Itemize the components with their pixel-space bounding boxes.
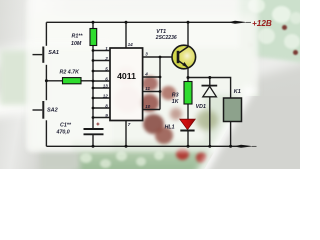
svg-text:7: 7 xyxy=(128,122,131,127)
gray corner beyond pcb edge bottom-right xyxy=(196,96,300,169)
transistor VT1 collector diagonal xyxy=(178,47,188,54)
node left wire / R2 junction xyxy=(45,79,48,82)
red/maroon component blobs under overlay xyxy=(116,66,136,85)
node bus pin2 xyxy=(92,59,95,62)
resistor R3 xyxy=(184,82,192,105)
wire pin 12 stub xyxy=(93,97,110,99)
wire pin 7 ground lead xyxy=(125,121,127,147)
white diagonal streak left middle xyxy=(0,65,171,125)
wire left input bus down to C1 xyxy=(92,46,94,129)
svg-text:VD1: VD1 xyxy=(196,104,206,110)
node emitter rail / VD1 junction xyxy=(208,76,211,79)
node ground rail / K1 junction xyxy=(229,145,232,148)
svg-text:2SC2236: 2SC2236 xyxy=(155,35,177,41)
wire C1 bottom lead xyxy=(92,135,94,146)
svg-text:11: 11 xyxy=(145,86,150,91)
svg-text:13: 13 xyxy=(103,83,109,88)
resistor R2 xyxy=(63,78,82,84)
svg-text:12: 12 xyxy=(103,93,109,98)
node output bus pin11 xyxy=(159,90,162,93)
svg-text:3: 3 xyxy=(145,52,148,57)
wire bottom ground rail xyxy=(46,145,237,147)
wire R1 top lead xyxy=(92,22,94,28)
node ground rail / HL1 junction xyxy=(187,145,190,148)
node emitter / R3 junction xyxy=(187,76,190,79)
svg-text:2: 2 xyxy=(104,56,108,61)
wire pin 14 supply lead xyxy=(125,22,127,48)
LED HL1 xyxy=(180,119,195,130)
arrow +12V supply xyxy=(231,21,252,24)
node bus pin1 xyxy=(92,49,95,52)
svg-text:VT1: VT1 xyxy=(156,29,166,35)
svg-text:SA2: SA2 xyxy=(47,107,58,113)
wire VD1 top lead xyxy=(209,78,211,86)
bottom green pcb strip xyxy=(72,141,240,172)
node top rail / R1 junction xyxy=(92,21,95,24)
wire pin 4 stub xyxy=(143,76,160,78)
wire pin 5 stub xyxy=(93,70,110,72)
svg-text:14: 14 xyxy=(128,42,134,47)
wire VT1 emitter vertical xyxy=(187,68,189,78)
svg-text:R1**: R1** xyxy=(72,34,84,40)
node bus pin12 xyxy=(92,97,95,100)
wire R3 top lead xyxy=(187,78,189,82)
green pcb top-right corner xyxy=(229,0,312,63)
svg-text:4011: 4011 xyxy=(117,71,136,81)
wire pin 2 stub xyxy=(93,60,110,62)
svg-text:10M: 10M xyxy=(71,41,82,47)
wire pin 1 stub xyxy=(93,50,110,52)
switch SA2 xyxy=(33,101,44,119)
wire base lead to VT1 xyxy=(160,56,177,58)
wire VD1 bottom lead xyxy=(209,97,211,147)
wire SA1 to R2 junction to SA2 xyxy=(45,65,47,100)
maroon component blobs seen through panel xyxy=(142,76,158,91)
transistor VT1 emitter arrow xyxy=(182,62,188,68)
svg-text:HL1: HL1 xyxy=(165,124,175,130)
wire emitter rail to K1 xyxy=(188,78,231,99)
node bus pin8 xyxy=(92,107,95,110)
wire SA2 bottom to bottom-left corner xyxy=(45,120,47,146)
photo background: base gray with streaks xyxy=(0,0,300,169)
wire pin 3 stub xyxy=(143,56,160,58)
node output bus pin3 xyxy=(159,56,162,59)
node top rail / collector junction xyxy=(187,21,190,24)
wire right output bus xyxy=(159,57,161,110)
node ground rail / C1 junction xyxy=(92,145,95,148)
svg-text:+12В: +12В xyxy=(252,19,272,28)
transistor VT1 emitter diagonal xyxy=(178,61,188,68)
capacitor C1 polarity plus xyxy=(96,123,99,126)
node top rail / pin14 junction xyxy=(125,21,128,24)
svg-text:4: 4 xyxy=(144,72,148,77)
svg-text:10: 10 xyxy=(145,104,151,109)
svg-text:470,0: 470,0 xyxy=(56,129,70,135)
wire R2 left lead xyxy=(46,80,62,82)
wire pin 8 stub xyxy=(93,107,110,109)
node bus pin9 xyxy=(92,116,95,119)
node ground rail / VD1 junction xyxy=(208,145,211,148)
switch SA1 xyxy=(33,47,44,63)
capacitor C1 plates xyxy=(84,129,104,134)
svg-text:K1: K1 xyxy=(234,89,241,95)
pale green central wash xyxy=(30,14,255,149)
wire pin 6 stub xyxy=(93,80,110,82)
relay K1 coil xyxy=(224,98,242,122)
wire top +12V rail xyxy=(46,21,231,23)
svg-text:1K: 1K xyxy=(172,99,180,105)
wire pin 11 stub xyxy=(143,91,160,93)
node bus pin5 xyxy=(92,70,95,73)
svg-text:C1**: C1** xyxy=(60,123,72,129)
wire pin 10 stub xyxy=(143,109,160,111)
diode VD1 xyxy=(202,86,218,97)
wire R2 right lead to input bus xyxy=(81,80,93,82)
wire HL1 bottom lead xyxy=(187,131,189,147)
svg-text:R2 4.7K: R2 4.7K xyxy=(60,70,81,76)
wire pin 9 stub xyxy=(93,117,110,119)
node ground rail / pin7 junction xyxy=(125,145,128,148)
wire K1 bottom lead xyxy=(230,122,232,147)
resistor R1 xyxy=(90,29,97,46)
svg-text:R3: R3 xyxy=(172,92,179,98)
node output bus pin4 xyxy=(159,76,162,79)
svg-text:SA1: SA1 xyxy=(48,50,59,56)
arrow ground lead out xyxy=(237,145,257,148)
transistor VT1 base bar xyxy=(177,51,180,63)
wire VT1 collector to +12V rail xyxy=(187,22,189,46)
transistor VT1 body xyxy=(172,45,196,69)
node bus pin13 xyxy=(92,87,95,90)
IC U1 4011 body xyxy=(110,48,143,121)
translucent white schematic panel xyxy=(26,0,258,152)
wire left vertical upper (to SA1) xyxy=(45,22,47,46)
wire R3 to HL1 xyxy=(187,104,189,119)
node bus pin6 / R2 xyxy=(92,80,95,83)
wire pin 13 stub xyxy=(93,87,110,89)
